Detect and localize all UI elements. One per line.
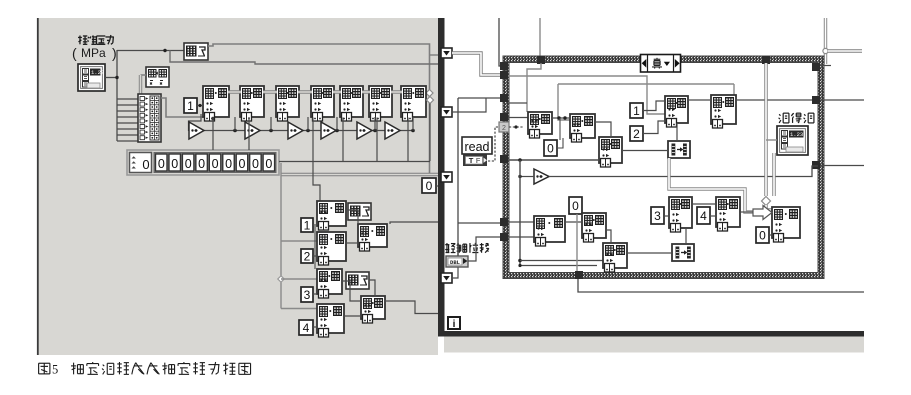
svg-text:i: i	[453, 319, 456, 330]
svg-text:1.23: 1.23	[91, 69, 104, 76]
svg-text:0: 0	[142, 157, 149, 172]
svg-text:0: 0	[158, 157, 165, 171]
svg-text:3: 3	[654, 209, 661, 223]
svg-text:2: 2	[304, 249, 311, 263]
svg-text:read: read	[464, 140, 489, 154]
svg-text:4: 4	[303, 321, 310, 335]
svg-text:0: 0	[572, 199, 579, 213]
svg-text:T: T	[469, 156, 474, 165]
svg-text:5: 5	[52, 363, 58, 377]
svg-text:0: 0	[759, 228, 766, 242]
svg-text:0: 0	[198, 157, 205, 171]
svg-text:4: 4	[700, 209, 707, 223]
svg-text:2: 2	[633, 127, 640, 141]
svg-text:0: 0	[265, 157, 272, 171]
svg-text:1: 1	[304, 218, 311, 232]
svg-text:0: 0	[252, 157, 259, 171]
svg-text:): )	[112, 45, 117, 61]
svg-text:0: 0	[171, 157, 178, 171]
svg-text:(: (	[72, 45, 77, 61]
svg-text:1.23: 1.23	[790, 131, 803, 138]
svg-text:0: 0	[185, 157, 192, 171]
svg-text:0: 0	[212, 157, 219, 171]
svg-text:0: 0	[225, 157, 232, 171]
svg-text:3: 3	[304, 288, 311, 302]
svg-text:0: 0	[547, 141, 554, 155]
svg-text:0: 0	[239, 157, 246, 171]
svg-text:F: F	[476, 156, 481, 165]
svg-text:1: 1	[633, 104, 640, 118]
svg-text:0: 0	[426, 179, 433, 193]
svg-text:1: 1	[187, 99, 194, 113]
svg-text:2: 2	[502, 125, 506, 132]
svg-text:MPa: MPa	[81, 46, 106, 60]
svg-text:DBL: DBL	[450, 259, 461, 266]
